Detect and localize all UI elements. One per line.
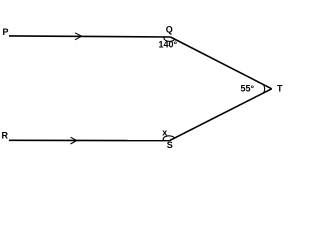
angle arc at T (55 degrees) (263, 85, 266, 93)
svg-text:55°: 55° (241, 84, 255, 94)
svg-text:T: T (277, 84, 283, 94)
wire ray P to Q (9, 36, 171, 37)
svg-text:x: x (162, 128, 167, 138)
arrow on ray RS (71, 137, 77, 144)
svg-text:R: R (2, 131, 9, 141)
angle arc at S (angle x) (163, 136, 174, 141)
svg-text:Q: Q (166, 24, 173, 34)
wire ray R to S (9, 139, 170, 141)
svg-text:P: P (3, 27, 9, 37)
wire segment Q to T (171, 37, 272, 89)
wire segment S to T (170, 89, 272, 141)
arrow on ray PQ (75, 33, 82, 40)
svg-text:S: S (167, 140, 173, 150)
angle arc at Q (140 degrees) (164, 37, 175, 41)
svg-text:140°: 140° (159, 39, 178, 49)
